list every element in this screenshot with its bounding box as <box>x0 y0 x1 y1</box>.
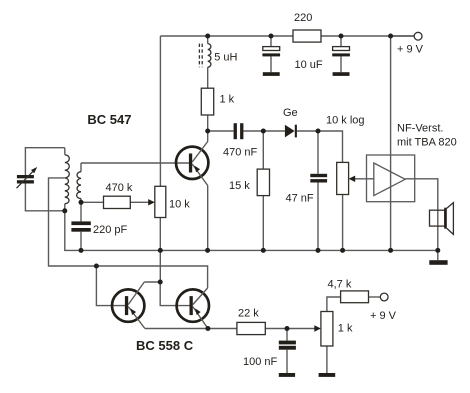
wire rail to amplifier drop <box>390 36 392 250</box>
svg-text:470 nF: 470 nF <box>223 147 258 159</box>
svg-text:1 k: 1 k <box>220 94 235 106</box>
wire T2 base <box>160 282 189 306</box>
resistor 220 <box>293 30 321 42</box>
speaker <box>430 210 445 226</box>
diode Ge <box>285 125 295 138</box>
wire 1k pot top to 4.7k <box>327 297 341 312</box>
wire coil tap to transistor collector <box>49 178 208 288</box>
svg-text:+ 9 V: + 9 V <box>370 310 397 322</box>
wire coil to 470k and 220pF <box>80 163 82 250</box>
wire speaker ground stub <box>437 250 439 260</box>
transistor BC558 #1 <box>112 289 144 321</box>
resistor 1k <box>201 88 213 115</box>
wire +9V terminal top <box>391 35 415 37</box>
svg-text:470 k: 470 k <box>106 182 133 194</box>
transistor BC558 #2 <box>177 289 209 321</box>
coil primary winding <box>65 155 70 204</box>
wire 1k pot ground stub <box>326 346 328 373</box>
wire volume pot to amp input <box>355 178 374 180</box>
wire 15k branch <box>262 131 264 250</box>
capacitor elco 10uF #1 <box>263 47 280 51</box>
svg-text:Ge: Ge <box>283 107 298 119</box>
wire top +9V rail <box>160 35 414 37</box>
inductor 5uH <box>208 44 211 68</box>
wire BC547 base from coil <box>81 162 189 164</box>
wire tank loop <box>25 148 64 211</box>
wire BC547 emitter drop <box>207 186 209 251</box>
potentiometer 10k log <box>337 162 349 194</box>
wire T1 base <box>96 266 125 306</box>
transistor BC547 <box>176 147 208 179</box>
ground under speaker <box>429 260 447 265</box>
potentiometer 1k wiper arrow <box>314 325 321 331</box>
wire bottom ground rail <box>65 211 438 251</box>
capacitor 220pF <box>71 221 90 225</box>
svg-text:+ 9 V: + 9 V <box>397 44 424 56</box>
ground under 100nF <box>279 373 295 377</box>
svg-text:BC 558 C: BC 558 C <box>136 338 194 353</box>
wire 22k to 1k pot wiper <box>265 328 315 330</box>
variable capacitor <box>17 175 34 178</box>
potentiometer 10k wiper arrow <box>148 199 155 205</box>
wire 4.7k to +9V <box>369 296 381 298</box>
terminal +9V top <box>414 32 422 40</box>
capacitor 100nF <box>279 341 296 345</box>
resistor 22k <box>237 322 265 334</box>
wire T1 collector to node <box>144 281 160 283</box>
resistor 15k <box>257 169 269 196</box>
resistor 4.7k <box>341 291 369 303</box>
wire 470k row <box>81 201 149 203</box>
svg-text:22 k: 22 k <box>238 308 259 320</box>
svg-text:BC 547: BC 547 <box>87 112 131 127</box>
svg-text:47 nF: 47 nF <box>286 193 314 205</box>
wire 10k pot bottom <box>159 218 161 251</box>
wire coil primary stubs <box>64 148 66 211</box>
svg-text:220 pF: 220 pF <box>93 224 128 236</box>
svg-text:10 k: 10 k <box>169 199 190 211</box>
coil secondary winding <box>77 172 81 199</box>
wire node drop x160 <box>159 250 161 282</box>
wire emitter rail to 22k <box>145 328 237 330</box>
wire elco 2 stubs <box>340 36 342 72</box>
op-amp triangle <box>374 163 405 196</box>
capacitor 470nF <box>234 123 237 139</box>
terminal +9V bottom <box>380 293 388 301</box>
ground under elco 2 <box>333 72 350 76</box>
wire amp output to speaker <box>405 179 438 251</box>
wire elco 1 stubs <box>270 36 272 72</box>
svg-text:5 uH: 5 uH <box>214 51 237 63</box>
resistor 470k <box>104 196 131 208</box>
svg-text:220: 220 <box>294 12 312 24</box>
wire 100nF stubs <box>286 329 288 374</box>
svg-text:10 uF: 10 uF <box>295 59 323 71</box>
svg-text:15 k: 15 k <box>229 180 250 192</box>
svg-text:1 k: 1 k <box>338 323 353 335</box>
svg-text:mit TBA 820: mit TBA 820 <box>397 136 457 148</box>
svg-text:NF-Verst.: NF-Verst. <box>397 123 443 135</box>
amplifier block TBA820 <box>367 155 415 202</box>
potentiometer 1k <box>321 312 333 347</box>
svg-text:10 k log: 10 k log <box>326 115 365 127</box>
wire detector line <box>208 131 343 162</box>
svg-text:100 nF: 100 nF <box>243 356 278 368</box>
potentiometer 10k <box>155 186 166 217</box>
wire 1k collector branch <box>207 36 209 142</box>
wire left drop from rail to 10k pot <box>159 36 161 186</box>
wire 47nF branch <box>317 131 319 250</box>
ground under 1k pot <box>319 373 336 377</box>
capacitor 47nF <box>310 174 327 177</box>
capacitor elco 10uF #2 <box>333 47 350 51</box>
ground under elco 1 <box>263 72 280 76</box>
svg-text:4,7 k: 4,7 k <box>328 279 352 291</box>
wire 10k log pot bottom <box>342 195 344 251</box>
